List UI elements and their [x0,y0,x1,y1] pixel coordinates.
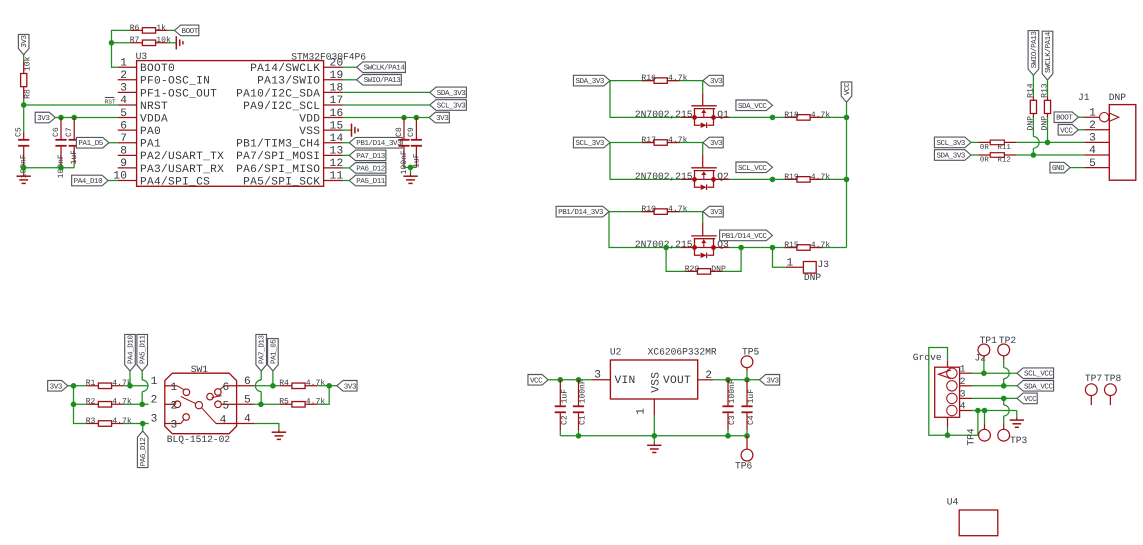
svg-text:PA7_D13: PA7_D13 [356,152,385,161]
svg-text:R12: R12 [998,157,1011,165]
svg-text:7: 7 [120,133,127,145]
svg-text:VSS: VSS [650,372,662,393]
capacitor C3 [722,379,737,430]
net flag VCC at J2 [1017,393,1037,404]
svg-text:1uF: 1uF [561,389,570,404]
svg-text:PA14/SWCLK: PA14/SWCLK [250,62,320,75]
svg-text:R2: R2 [86,398,96,407]
svg-text:PB1/D14_3V3: PB1/D14_3V3 [356,139,402,148]
svg-text:1uF: 1uF [412,153,421,168]
wire PB1 row [609,212,703,248]
wire J2 pin4 gnd [972,408,1017,418]
capacitor C4 [741,380,756,430]
net label RST [105,97,116,105]
test point TP2 [998,335,1017,386]
svg-text:2: 2 [151,395,158,407]
svg-text:Q1: Q1 [717,109,729,120]
svg-text:4.7k: 4.7k [811,173,831,182]
svg-text:R13: R13 [1041,83,1050,98]
svg-text:4: 4 [220,415,227,427]
svg-text:2: 2 [1089,120,1096,132]
svg-text:R19: R19 [784,173,799,182]
wire SWIO to R14 [1032,75,1034,88]
net flag PB1/D14_VCC [720,230,773,241]
svg-text:5: 5 [222,401,229,413]
svg-text:PA10/I2C_SDA: PA10/I2C_SDA [236,87,320,100]
svg-text:C4: C4 [747,415,756,425]
wire R13 to SCL row [1045,126,1051,146]
svg-text:100nF: 100nF [400,150,409,174]
test point TP3 [998,424,1028,447]
svg-text:J1: J1 [1078,92,1090,103]
resistor R11 0R [979,140,1017,152]
svg-text:4: 4 [120,95,127,107]
svg-text:C1: C1 [579,415,588,425]
svg-text:C6: C6 [52,127,61,137]
net flag SWIO/PA13 [343,74,402,85]
switch SW1 BLQ-1512-02 [151,364,251,445]
svg-text:1uF: 1uF [70,150,79,165]
net flag 3V3 row1 [703,75,723,86]
svg-text:2: 2 [960,376,966,387]
svg-text:4.7k: 4.7k [112,398,132,407]
net flag SDA_VCC [736,100,773,111]
svg-text:PA3/USART_RX: PA3/USART_RX [140,163,224,176]
capacitor C6 [52,118,67,179]
wire SDA to R12 [971,154,979,156]
svg-text:18: 18 [330,83,344,95]
svg-text:SDA_VCC: SDA_VCC [738,102,767,111]
wire Q1 drain to VCC rail [730,115,850,121]
resistor R20 [685,265,726,274]
wire VCC rail [846,102,848,247]
net flag PA5_D11 [343,175,386,186]
svg-text:13: 13 [330,146,344,158]
svg-text:C7: C7 [65,127,74,137]
net flag PA5_D11 at SW1 [137,334,148,404]
wire SCL to R11 [971,141,979,143]
wire SDA_3V3 from pin 18 [343,91,430,93]
wire 3V3 SW1 left [68,383,86,424]
net flag SWIO/PA13 at J1 [1028,31,1039,76]
ground after R7 [168,36,183,49]
svg-text:3V3: 3V3 [50,382,63,391]
svg-text:PA4/SPI_CS: PA4/SPI_CS [140,175,210,188]
net flag PA7_D13 at SW1 [255,334,266,404]
svg-text:3: 3 [171,420,178,432]
svg-text:R6: R6 [130,24,140,33]
resistor R16 [641,74,687,83]
svg-text:U2: U2 [610,346,622,357]
capacitor C8 [395,118,410,175]
test point TP1 [978,335,997,373]
svg-text:J3: J3 [818,259,830,270]
net flag SWCLK/PA14 at J1 [1042,31,1053,80]
net flag SCL_3V3 at J1 [934,137,971,148]
svg-text:R20: R20 [685,265,700,274]
svg-text:SDA_3V3: SDA_3V3 [575,77,604,86]
svg-text:VCC: VCC [530,376,543,385]
svg-text:PA9/I2C_SCL: PA9/I2C_SCL [243,100,320,113]
resistor R4 [279,379,325,388]
test point TP5 [741,346,759,380]
capacitor C1 [573,379,588,430]
svg-text:1uF: 1uF [747,389,756,404]
svg-text:3V3: 3V3 [710,208,723,217]
net flag VCC at U2 [528,375,548,386]
supply flag 3V3 top-left [18,34,29,54]
svg-text:SCL_3V3: SCL_3V3 [575,139,604,148]
net flag PA1_05 [76,137,117,148]
svg-text:1: 1 [635,408,647,415]
resistor R2 [86,398,132,407]
svg-text:9: 9 [120,158,127,170]
wire SDA_3V3 row [610,81,703,118]
svg-text:VIN: VIN [615,375,636,387]
svg-text:2N7002,215: 2N7002,215 [635,109,693,120]
svg-text:3: 3 [151,414,158,426]
svg-text:12: 12 [330,158,344,170]
svg-text:GND: GND [1052,164,1065,173]
svg-text:15: 15 [330,120,344,132]
wire R1 to SW pin1 [124,383,149,389]
svg-text:R18: R18 [784,111,799,120]
svg-text:3V3: 3V3 [37,114,50,123]
svg-text:6: 6 [222,382,229,394]
svg-text:VSS: VSS [299,126,320,138]
connector J2 Grove [913,352,986,427]
svg-text:8: 8 [120,146,127,158]
svg-text:DNP: DNP [1109,92,1127,103]
svg-text:2: 2 [705,370,712,382]
resistor R6 [130,24,168,33]
svg-text:PB1/D14_3V3: PB1/D14_3V3 [558,208,604,217]
ground at U2 VSS [647,436,661,453]
resistor R10 [641,205,687,214]
svg-text:SCL_VCC: SCL_VCC [738,164,767,173]
svg-text:SCL_3V3: SCL_3V3 [437,101,466,110]
svg-text:PA2/USART_TX: PA2/USART_TX [140,150,224,163]
wire R14 to SDA row [1031,126,1040,158]
svg-text:VOUT: VOUT [663,375,691,387]
transistor Q3 [635,236,730,258]
wire J2 pin1 SCL_VCC [972,370,1017,376]
resistor R12 0R [979,153,1017,165]
svg-text:R3: R3 [86,417,96,426]
svg-text:BOOT0: BOOT0 [140,63,175,75]
svg-text:PA6_D12: PA6_D12 [139,438,148,467]
wire VCC to J1 pin2 [1078,129,1084,131]
svg-text:DNP: DNP [1041,116,1050,131]
svg-text:VDD: VDD [299,113,320,125]
svg-text:SCL_VCC: SCL_VCC [1024,370,1053,379]
wire BOOT0 net from R6/R7 to pin 1 [109,30,131,67]
net flag 3V3 row3 [703,206,723,217]
net flag VCC at J1 [1058,125,1078,136]
svg-text:BOOT: BOOT [182,27,199,36]
svg-text:4.7k: 4.7k [306,379,326,388]
svg-text:RST: RST [105,99,116,106]
test point TP4 [965,411,990,446]
svg-text:TP3: TP3 [1010,435,1028,446]
svg-text:PA13/SWIO: PA13/SWIO [257,75,320,88]
svg-text:C5: C5 [15,127,24,137]
svg-text:PF0-OSC_IN: PF0-OSC_IN [140,76,210,88]
wire J2 pin3 VCC [972,396,1017,402]
net flag PB1/D14_3V3 shifter [556,206,609,217]
connector J1 DNP [1078,92,1136,180]
svg-text:C3: C3 [728,415,737,425]
net flag PA6_D12 [343,163,386,174]
transistor Q1 [635,106,730,128]
wire R3 to SW pin3 [124,421,149,427]
svg-text:SWIO/PA13: SWIO/PA13 [364,76,402,85]
net flag SDA_VCC [1017,381,1054,392]
svg-text:TP5: TP5 [742,346,760,357]
net flag SDA_3V3 at J1 [934,150,971,161]
svg-text:R7: R7 [130,36,140,45]
svg-text:PA4_D10: PA4_D10 [126,335,135,364]
wire 3V3 to R8 [23,55,25,62]
wire NRST net [21,99,118,133]
svg-text:19: 19 [330,70,344,82]
supply flag VCC rail [841,82,852,102]
svg-text:C8: C8 [395,127,404,137]
svg-text:VCC: VCC [843,82,852,95]
svg-text:4.7k: 4.7k [668,205,688,214]
svg-text:3V3: 3V3 [710,139,723,148]
resistor R5 [279,398,325,407]
svg-text:R5: R5 [279,398,289,407]
svg-text:3: 3 [120,83,127,95]
supply flag 3V3 at SW1 left [48,381,68,392]
resistor R17 [641,136,687,145]
resistor R18 [784,111,830,120]
net flag BOOT at J1 [1054,112,1078,123]
wire SW pin5 [237,402,280,408]
net flag BOOT [168,25,199,36]
resistor R7 [130,36,171,45]
capacitor C9 [407,118,422,168]
svg-text:100nF: 100nF [728,379,737,403]
svg-text:DNP: DNP [804,272,822,283]
net flag PA7_D13 [343,150,386,161]
svg-text:U4: U4 [947,496,959,507]
net flag SWCLK/PA14 [343,62,406,73]
svg-text:R1: R1 [86,379,96,388]
resistor R3 [86,417,132,426]
svg-text:U3: U3 [136,51,148,62]
ground at VSS pin 15 [343,124,359,137]
svg-text:PA5_D11: PA5_D11 [140,335,148,364]
wire R4 R5 to 3V3 [317,383,337,404]
wire J2 ground loop [929,348,981,439]
wire TP3 branch [1004,398,1010,423]
svg-text:3: 3 [594,369,601,381]
net flag SCL_VCC [736,162,773,173]
svg-text:4: 4 [960,401,966,412]
wire SCL_3V3 row [610,143,703,180]
svg-text:PA1_D5: PA1_D5 [78,140,103,148]
wire C2 C1 to rail [560,430,578,436]
wire to J3 [773,248,786,268]
svg-text:2N7002,215: 2N7002,215 [635,171,693,182]
wire VDDA [55,115,117,121]
svg-text:Q2: Q2 [717,171,729,182]
svg-text:16: 16 [330,108,344,120]
svg-text:PA4_D10: PA4_D10 [74,177,103,186]
svg-text:SDA_VCC: SDA_VCC [1024,382,1053,391]
wire R11 to J1 pin3 [1016,141,1084,143]
svg-text:TP6: TP6 [735,461,753,472]
wire Q3 drain to VCC rail [663,245,846,251]
wire GND to J1 pin5 [1070,167,1084,169]
net flag PA1_05 at SW1 [268,339,279,386]
IC U2 XC6206P332MR [593,346,717,415]
svg-text:C2: C2 [561,415,570,425]
svg-text:R16: R16 [641,74,656,83]
svg-text:Grove: Grove [913,352,942,363]
test point TP8 [1104,373,1122,405]
svg-text:PA7_D13: PA7_D13 [258,335,267,364]
svg-text:PA1_05: PA1_05 [269,339,278,364]
svg-text:20: 20 [330,57,344,69]
svg-text:10k: 10k [156,36,171,45]
svg-text:4.7k: 4.7k [306,398,326,407]
svg-text:5: 5 [1089,158,1096,170]
svg-text:SWCLK/PA14: SWCLK/PA14 [1044,31,1053,73]
svg-text:SW1: SW1 [191,364,209,375]
svg-text:PA7/SPI_MOSI: PA7/SPI_MOSI [236,150,320,163]
svg-text:R15: R15 [784,241,799,250]
svg-text:VDDA: VDDA [140,113,168,125]
svg-text:2: 2 [120,70,127,82]
svg-text:TP4: TP4 [965,428,976,446]
svg-text:17: 17 [330,95,344,107]
connector J3 [786,257,830,283]
svg-text:4.7k: 4.7k [811,241,831,250]
svg-text:3V3: 3V3 [436,114,449,123]
net flag PA4_010 [72,175,118,186]
svg-text:TP8: TP8 [1104,373,1122,384]
ground left rail [17,168,31,184]
svg-text:XC6206P332MR: XC6206P332MR [648,346,717,357]
ground at J2 pin4 [1010,418,1024,428]
svg-text:DNP: DNP [711,265,726,274]
svg-text:VCC: VCC [1024,395,1037,404]
resistor R19 [784,173,830,182]
resistor R15 [784,241,830,250]
svg-text:3: 3 [1089,133,1096,145]
wire SWCLK to R13 [1047,80,1049,88]
wire R2 to SW pin2 [124,402,149,408]
svg-text:PB1/D14_VCC: PB1/D14_VCC [722,232,768,241]
wire BOOT to J1 pin1 [1078,116,1083,118]
supply flag 3V3 at VDDA [35,112,55,123]
net flag GND at J1 [1050,162,1070,173]
wire SCL_3V3 from pin 17 [343,104,430,106]
svg-text:SDA_3V3: SDA_3V3 [437,89,466,98]
IC U4 [947,496,998,535]
svg-text:0R: 0R [980,157,989,165]
svg-text:3V3: 3V3 [20,35,29,48]
wire cap ground rail [21,164,74,171]
net flag PA6_D12 at SW1 [137,424,148,468]
svg-text:PA5_D11: PA5_D11 [356,178,385,186]
svg-text:R17: R17 [641,136,656,145]
svg-text:3V3: 3V3 [766,376,779,385]
wire SW pin4 to ground [237,424,279,430]
net flag SCL_3V3 pin17 [430,100,467,111]
svg-text:PA1: PA1 [140,139,161,151]
svg-text:1: 1 [151,376,158,388]
svg-text:PA5/SPI_SCK: PA5/SPI_SCK [243,175,320,188]
capacitor C7 [65,118,80,165]
wire Q2 drain to VCC rail [730,177,850,183]
ground at SW1 pin4 [272,430,286,440]
svg-text:BLQ-1512-02: BLQ-1512-02 [167,434,231,445]
svg-text:R4: R4 [279,379,289,388]
svg-text:100nF: 100nF [579,379,588,403]
svg-text:BOOT: BOOT [1056,114,1073,123]
svg-text:4.7k: 4.7k [668,136,688,145]
wire VDD 3V3 [343,115,430,121]
svg-text:R14: R14 [1027,83,1036,98]
svg-text:R11: R11 [998,144,1012,152]
svg-text:10k: 10k [23,56,32,71]
svg-text:R8: R8 [23,89,32,99]
resistor R14 [1027,83,1037,130]
supply flag 3V3 at SW1 right [337,381,357,392]
svg-text:1: 1 [120,57,127,69]
resistor R13 [1041,83,1051,130]
svg-text:PA6_D12: PA6_D12 [356,164,385,173]
test point TP6 [735,436,753,472]
test point TP7 [1085,373,1102,405]
svg-text:3V3: 3V3 [344,382,357,391]
svg-text:SDA_3V3: SDA_3V3 [936,151,965,160]
svg-text:3: 3 [960,389,966,400]
svg-text:SCL_3V3: SCL_3V3 [936,139,965,148]
svg-text:1k: 1k [156,24,166,33]
svg-text:1: 1 [171,382,178,394]
svg-text:3V3: 3V3 [710,77,723,86]
svg-text:4.7k: 4.7k [112,417,132,426]
net flag SCL_3V3 shifter [573,137,610,148]
svg-text:1: 1 [1089,107,1096,119]
net flag SDA_3V3 shifter [573,75,610,86]
svg-text:PA0: PA0 [140,126,161,138]
wire VCC to VIN [548,377,592,383]
wire J2 pin2 SDA_VCC [972,383,1017,389]
wire VOUT to 3V3 [713,377,759,383]
svg-text:PA6/SPI_MISO: PA6/SPI_MISO [236,163,320,176]
resistor R8 [21,56,33,99]
wire C8 C9 ground rail [404,165,416,171]
svg-text:14: 14 [330,133,344,145]
svg-text:TP7: TP7 [1085,373,1102,384]
net flag 3V3 at VDD [429,112,449,123]
net flag PA4_D10 at SW1 [125,334,136,385]
net flag SCL_VCC [1017,368,1054,379]
svg-text:4.7k: 4.7k [811,111,831,120]
net flag 3V3 at VOUT [759,375,779,386]
IC U3 STM32F030F4P6 [113,51,366,188]
wire SW pin6 [237,383,280,389]
svg-text:6: 6 [120,120,127,132]
transistor Q2 [635,168,730,190]
svg-text:5: 5 [120,108,127,120]
